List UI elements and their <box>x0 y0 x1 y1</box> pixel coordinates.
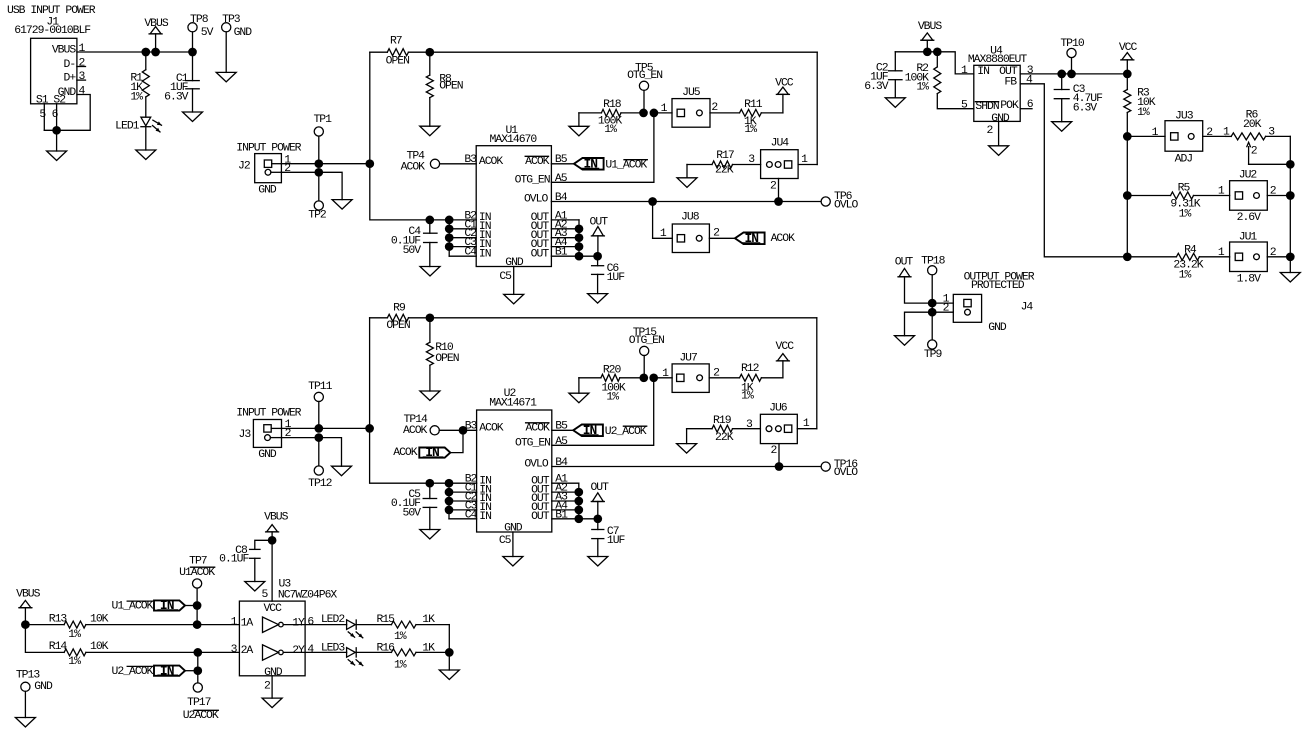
testpoint TP10 <box>1060 38 1085 74</box>
power flag VBUS (U3 left) <box>16 589 41 625</box>
svg-text:2Y: 2Y <box>292 645 305 657</box>
capacitor C7 <box>592 519 626 557</box>
ground LED return <box>439 670 459 680</box>
wire feedback rail <box>1123 132 1132 261</box>
svg-text:OPEN: OPEN <box>386 56 410 68</box>
ground R18 <box>569 126 589 136</box>
svg-text:OTG_EN: OTG_EN <box>515 175 550 187</box>
svg-text:OTG_EN: OTG_EN <box>627 70 662 82</box>
svg-text:POK: POK <box>1000 100 1019 112</box>
testpoint TP13 <box>16 670 53 718</box>
svg-text:GND: GND <box>264 667 283 679</box>
svg-text:LED1: LED1 <box>115 121 140 133</box>
svg-text:IN: IN <box>583 423 597 438</box>
svg-text:50V: 50V <box>403 245 422 257</box>
ground LED1 <box>136 150 156 160</box>
testpoint TP18 <box>921 256 946 340</box>
svg-text:1%: 1% <box>1137 107 1150 119</box>
svg-text:GND: GND <box>258 184 277 196</box>
capacitor C1 <box>164 52 199 112</box>
wire U2 OUT bus <box>552 483 602 523</box>
svg-text:J4: J4 <box>1021 301 1034 313</box>
svg-text:R11: R11 <box>744 99 763 111</box>
svg-text:OUT: OUT <box>590 482 609 494</box>
svg-text:VCC: VCC <box>775 78 794 90</box>
ground R19 <box>677 444 697 454</box>
resistor R16 <box>376 643 449 672</box>
testpoint TP8 <box>188 14 214 52</box>
testpoint TP14 <box>403 414 477 437</box>
svg-text:TP7: TP7 <box>189 555 207 567</box>
svg-text:ACOK: ACOK <box>526 422 551 434</box>
svg-text:JU8: JU8 <box>681 212 700 224</box>
resistor R17 <box>687 150 761 178</box>
svg-text:1%: 1% <box>744 124 757 136</box>
connector J1 <box>14 17 91 121</box>
wire J3 pin2 net <box>282 433 342 466</box>
ground R10 <box>420 391 440 401</box>
op-amp U4 MAX8880EUT body <box>961 46 1034 137</box>
svg-text:ACOK: ACOK <box>479 423 504 435</box>
svg-text:U1_ACOK: U1_ACOK <box>605 159 647 171</box>
LED LED3 <box>283 643 391 666</box>
jumper JU6 <box>746 318 817 467</box>
capacitor C8 <box>219 540 272 581</box>
testpoint TP3 <box>222 14 253 73</box>
svg-text:OVLO: OVLO <box>524 459 549 471</box>
svg-text:IN: IN <box>479 248 491 260</box>
svg-text:TP9: TP9 <box>924 349 943 361</box>
testpoint TP6 <box>821 191 858 211</box>
svg-text:VBUS: VBUS <box>16 589 41 601</box>
testpoint TP4 <box>401 151 477 174</box>
capacitor C4 <box>391 220 437 267</box>
svg-text:JU2: JU2 <box>1239 170 1258 182</box>
svg-text:D-: D- <box>64 59 76 71</box>
svg-text:22K: 22K <box>715 432 734 444</box>
ground C6 <box>588 294 608 304</box>
svg-text:6.3V: 6.3V <box>164 91 189 103</box>
svg-text:2A: 2A <box>241 645 254 657</box>
svg-text:IN: IN <box>583 156 597 171</box>
svg-text:R16: R16 <box>376 643 395 655</box>
svg-text:R7: R7 <box>390 35 402 47</box>
wire J2 pin1 net <box>281 159 374 168</box>
wire U2 GND pin <box>499 532 513 557</box>
svg-text:R12: R12 <box>741 363 760 375</box>
svg-text:1A: 1A <box>241 617 254 629</box>
svg-text:D+: D+ <box>64 72 77 84</box>
svg-text:SHDN: SHDN <box>975 101 999 113</box>
ground U4 <box>989 146 1009 156</box>
ground U3 <box>262 698 282 708</box>
svg-text:OVLO: OVLO <box>524 194 549 206</box>
svg-text:FB: FB <box>1004 76 1017 88</box>
resistor R8 <box>426 52 462 126</box>
net tag U2_ACOK (U3 input) <box>112 652 203 683</box>
svg-text:TP2: TP2 <box>308 209 327 221</box>
testpoint TP9 <box>924 340 943 361</box>
text USB INPUT POWER title <box>7 5 96 17</box>
svg-text:6.3V: 6.3V <box>864 81 889 93</box>
svg-text:1%: 1% <box>68 629 81 641</box>
capacitor C2 <box>864 52 902 98</box>
svg-text:1%: 1% <box>394 659 407 671</box>
resistor R2 <box>905 52 974 109</box>
testpoint TP7 <box>179 555 215 624</box>
svg-text:TP11: TP11 <box>308 381 333 393</box>
ground J1 shield <box>47 151 67 161</box>
wire U2 OTG_EN to R20 node <box>552 378 654 446</box>
ground J2 pin2 <box>332 200 352 210</box>
svg-text:ACOK: ACOK <box>479 156 504 168</box>
svg-text:VBUS: VBUS <box>264 511 289 523</box>
svg-text:PROTECTED: PROTECTED <box>971 280 1025 292</box>
ground U1 <box>504 294 524 304</box>
wire U3 GND pin <box>264 676 272 698</box>
svg-text:A5: A5 <box>555 173 568 185</box>
svg-text:1%: 1% <box>130 91 143 103</box>
svg-text:OVLO: OVLO <box>834 200 859 212</box>
svg-text:USB INPUT POWER: USB INPUT POWER <box>7 5 96 17</box>
resistor R11 <box>740 99 783 136</box>
svg-text:1.8V: 1.8V <box>1237 274 1262 286</box>
svg-text:OPEN: OPEN <box>439 81 463 93</box>
svg-text:ACOK: ACOK <box>403 425 428 437</box>
svg-text:IN: IN <box>160 598 174 613</box>
svg-text:MAX14670: MAX14670 <box>490 134 538 146</box>
svg-text:TP13: TP13 <box>16 670 41 682</box>
resistor R4 <box>1127 244 1229 281</box>
wire J1 VBUS net <box>77 48 197 57</box>
svg-text:R15: R15 <box>376 614 395 626</box>
jumper JU3 <box>1127 111 1225 166</box>
ground TP3 <box>216 72 236 82</box>
svg-text:C4: C4 <box>465 509 478 521</box>
ground C8 <box>245 582 265 592</box>
svg-text:IN: IN <box>744 231 758 246</box>
svg-text:VBUS: VBUS <box>52 44 77 56</box>
svg-text:GND: GND <box>258 449 277 461</box>
svg-text:OPEN: OPEN <box>435 353 459 365</box>
svg-text:5V: 5V <box>201 27 214 39</box>
ground R17 <box>677 178 697 188</box>
testpoint TP17 <box>183 683 219 722</box>
power flag VCC (R12) <box>776 341 795 378</box>
power flag VBUS (U4) <box>918 21 943 52</box>
wire output divider rail <box>1286 136 1295 272</box>
resistor R3 <box>1124 74 1156 136</box>
op-amp U2 MAX14671 body <box>465 388 568 534</box>
svg-text:GND: GND <box>34 681 53 693</box>
testpoint TP1 <box>313 114 332 164</box>
svg-text:1UF: 1UF <box>607 535 626 547</box>
text INPUT POWER (J2) <box>236 143 301 155</box>
testpoint TP11 <box>308 381 333 428</box>
svg-text:TP3: TP3 <box>222 14 241 26</box>
testpoint TP15 <box>629 327 664 378</box>
net tag ACOK (U2 input) <box>393 430 463 460</box>
svg-text:U1ACOK: U1ACOK <box>179 567 215 579</box>
svg-text:C5: C5 <box>499 271 512 283</box>
wire mid rail (R9 to JU6 pin1) <box>426 313 817 322</box>
svg-text:TP1: TP1 <box>313 114 332 126</box>
svg-text:ACOK: ACOK <box>393 447 418 459</box>
svg-text:1%: 1% <box>394 631 407 643</box>
svg-text:R9: R9 <box>393 302 406 314</box>
svg-text:JU4: JU4 <box>771 138 790 150</box>
svg-text:1Y: 1Y <box>292 617 305 629</box>
svg-text:JU7: JU7 <box>679 352 697 364</box>
svg-text:OTG_EN: OTG_EN <box>629 335 664 347</box>
jumper JU7 <box>654 352 740 392</box>
svg-text:JU6: JU6 <box>769 403 788 415</box>
svg-text:2.6V: 2.6V <box>1237 212 1262 224</box>
wire J2 pin2 net <box>281 168 342 200</box>
svg-text:C4: C4 <box>464 247 477 259</box>
svg-text:U2_ACOK: U2_ACOK <box>112 666 154 678</box>
resistor R7 <box>370 35 430 67</box>
resistor R12 <box>740 363 783 402</box>
LED LED2 <box>283 614 391 638</box>
svg-text:JU5: JU5 <box>682 87 701 99</box>
svg-text:10K: 10K <box>90 641 109 653</box>
inverter U3 NC7WZ04P6X body <box>231 579 338 679</box>
svg-text:J2: J2 <box>238 160 251 172</box>
svg-text:OUT: OUT <box>531 248 550 260</box>
resistor R10 <box>426 318 458 391</box>
ground TP13 <box>15 718 35 728</box>
svg-text:OVLO: OVLO <box>834 467 859 479</box>
svg-text:OPEN: OPEN <box>386 320 410 332</box>
wire J4 pin2 / ground <box>905 312 954 336</box>
capacitor C6 <box>592 256 626 293</box>
power flag VCC (R11) <box>775 78 794 113</box>
svg-text:OUT: OUT <box>895 256 914 268</box>
ground R20 <box>569 393 589 403</box>
svg-text:R19: R19 <box>713 415 732 427</box>
svg-text:61729-0010BLF: 61729-0010BLF <box>14 25 91 37</box>
svg-text:TP12: TP12 <box>308 478 333 490</box>
svg-text:OTG_EN: OTG_EN <box>515 438 550 450</box>
ground U2 <box>503 557 523 567</box>
op-amp U1 MAX14670 body <box>464 125 567 269</box>
connector J3 <box>239 419 292 461</box>
svg-text:GND: GND <box>991 113 1010 125</box>
svg-text:ACOK: ACOK <box>771 233 796 245</box>
wire LED return <box>445 625 454 670</box>
wire U4 OUT net <box>1020 70 1131 79</box>
testpoint TP5 <box>627 62 662 113</box>
resistor R20 <box>579 364 658 403</box>
power flag OUT (U1) <box>590 217 609 257</box>
connector J2 <box>238 154 291 197</box>
text INPUT POWER (J3) <box>236 408 301 420</box>
svg-text:1%: 1% <box>1179 208 1192 220</box>
ground C1 <box>183 112 203 122</box>
svg-text:IN: IN <box>977 66 989 78</box>
svg-text:1%: 1% <box>916 82 929 94</box>
testpoint TP12 <box>308 442 333 490</box>
net tag U1_ACOK (pin B5) <box>551 156 647 171</box>
wire U4 GND pin <box>998 121 1000 145</box>
power flag VCC (U4) <box>1119 42 1138 74</box>
wire U1 GND pin <box>499 267 513 295</box>
svg-text:R18: R18 <box>603 99 622 111</box>
svg-text:B1: B1 <box>555 509 568 521</box>
svg-text:VBUS: VBUS <box>918 21 943 33</box>
capacitor C3 <box>1054 74 1103 122</box>
testpoint TP2 <box>308 177 327 222</box>
ground C4 <box>420 267 440 277</box>
wire U2 IN bus <box>445 483 477 519</box>
svg-text:10K: 10K <box>90 613 109 625</box>
svg-text:ACOK: ACOK <box>401 161 426 173</box>
svg-text:20K: 20K <box>1243 119 1262 131</box>
svg-text:OUT: OUT <box>531 511 550 523</box>
svg-text:ADJ: ADJ <box>1175 153 1193 165</box>
wire J4 pin1 <box>932 302 953 304</box>
resistor R1 <box>130 52 149 117</box>
jumper JU2 <box>1218 170 1290 224</box>
svg-text:S1 S2: S1 S2 <box>36 95 66 107</box>
svg-text:B1: B1 <box>555 247 568 259</box>
svg-text:VCC: VCC <box>776 341 795 353</box>
wire top rail (R7 to JU4 pin1) <box>425 48 817 57</box>
net tag U1_ACOK (U3 input) <box>112 598 198 613</box>
wire U4 FB net <box>1020 84 1127 257</box>
jumper JU4 <box>748 52 817 201</box>
svg-text:ACOK: ACOK <box>525 156 550 168</box>
svg-text:TP8: TP8 <box>190 14 209 26</box>
wire U4 IN net <box>895 47 974 73</box>
svg-text:1%: 1% <box>68 656 81 668</box>
resistor R9 <box>370 302 430 332</box>
svg-text:1%: 1% <box>741 390 754 402</box>
ground J4 <box>895 336 915 346</box>
power flag OUT (J4) <box>895 256 932 303</box>
svg-text:NC7WZ04P6X: NC7WZ04P6X <box>278 589 338 601</box>
wire U1 input trunk <box>370 52 476 224</box>
resistor R15 <box>376 614 449 643</box>
power flag VBUS (C8) <box>264 511 289 601</box>
resistor R18 <box>579 99 658 136</box>
svg-text:INPUT POWER: INPUT POWER <box>236 143 301 155</box>
resistor R19 <box>687 415 761 444</box>
svg-text:IN: IN <box>160 663 174 678</box>
power flag OUT (U2) <box>590 482 609 519</box>
wire J3 pin1 net <box>282 424 374 433</box>
svg-text:U2_ACOK: U2_ACOK <box>605 426 647 438</box>
power flag VBUS (J1) <box>144 18 169 52</box>
potentiometer R6 <box>1223 109 1290 164</box>
svg-text:1%: 1% <box>604 124 617 136</box>
svg-text:GND: GND <box>505 257 524 269</box>
wire U1 OVLO net <box>551 197 821 206</box>
svg-text:J3: J3 <box>239 429 252 441</box>
jumper JU8 <box>653 202 735 253</box>
svg-text:VCC: VCC <box>263 603 282 615</box>
resistor R14 <box>25 625 239 669</box>
svg-text:50V: 50V <box>402 508 421 520</box>
ground C3 <box>1052 122 1072 132</box>
svg-text:A5: A5 <box>555 436 568 448</box>
net tag U2_ACOK (pin B5) <box>552 423 647 438</box>
wire U1 OTG_EN to R18 node <box>551 113 654 182</box>
svg-text:IN: IN <box>479 511 491 523</box>
svg-text:GND: GND <box>234 27 253 39</box>
svg-text:U1_ACOK: U1_ACOK <box>112 601 154 613</box>
svg-text:IN: IN <box>425 445 439 460</box>
svg-text:1%: 1% <box>1179 269 1192 281</box>
svg-text:VCC: VCC <box>1119 42 1138 54</box>
svg-text:0.1UF: 0.1UF <box>219 554 249 566</box>
svg-text:GND: GND <box>988 322 1007 334</box>
LED LED1 <box>115 117 161 150</box>
svg-text:6.3V: 6.3V <box>1073 102 1098 114</box>
svg-text:MAX8880EUT: MAX8880EUT <box>968 54 1028 66</box>
svg-text:MAX14671: MAX14671 <box>489 398 537 410</box>
wire J1 pin4 to S1/S2 junction <box>44 95 90 152</box>
jumper JU1 <box>1218 231 1290 285</box>
resistor R5 <box>1127 183 1229 221</box>
svg-text:R20: R20 <box>603 364 622 376</box>
wire U2 OVLO net <box>552 462 821 471</box>
svg-text:TP17: TP17 <box>187 697 211 709</box>
wire U1 IN bus <box>445 220 476 256</box>
svg-text:1UF: 1UF <box>607 272 626 284</box>
ground C5 <box>420 530 440 540</box>
ground divider rail <box>1280 273 1300 283</box>
svg-text:U2ACOK: U2ACOK <box>183 710 219 722</box>
ground C7 <box>588 557 608 567</box>
svg-text:INPUT POWER: INPUT POWER <box>236 408 301 420</box>
wire U1 OUT bus <box>551 220 602 261</box>
svg-text:C5: C5 <box>499 535 512 547</box>
connector J4 <box>943 271 1035 334</box>
ground R8 <box>420 126 440 136</box>
testpoint TP16 <box>821 459 858 479</box>
wire U2 input trunk <box>370 318 477 488</box>
svg-text:1%: 1% <box>606 391 619 403</box>
net tag ACOK (JU8) <box>735 231 795 246</box>
capacitor C5 <box>391 483 437 529</box>
resistor R13 <box>21 613 239 640</box>
ground C2 <box>885 98 905 108</box>
ground J3 pin2 <box>332 466 352 476</box>
svg-text:R17: R17 <box>716 150 734 162</box>
jumper JU5 <box>654 87 740 127</box>
